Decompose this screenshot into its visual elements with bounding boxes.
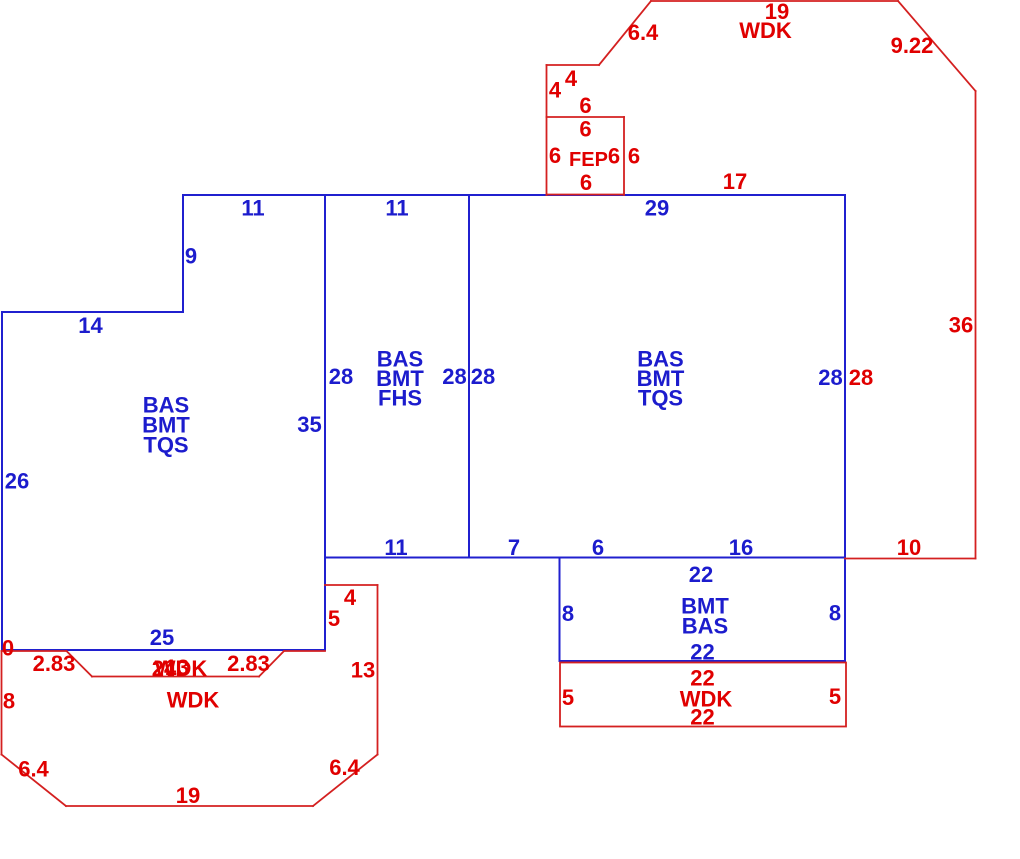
FEP box right <box>623 117 625 195</box>
wire: red left vertical x=546.5 <box>546 65 548 195</box>
svg-text:TQS: TQS <box>143 433 188 458</box>
svg-text:13: 13 <box>351 658 375 683</box>
svg-text:6.4: 6.4 <box>628 20 659 45</box>
svg-text:11: 11 <box>385 196 408 221</box>
svg-text:14: 14 <box>78 313 103 338</box>
svg-text:17: 17 <box>723 169 747 194</box>
svg-text:4: 4 <box>565 66 578 91</box>
svg-text:22: 22 <box>690 705 714 730</box>
svg-text:28: 28 <box>818 365 842 390</box>
svg-text:9.22: 9.22 <box>891 33 934 58</box>
svg-text:2.83: 2.83 <box>33 651 76 676</box>
svg-text:4: 4 <box>344 585 357 610</box>
svg-text:28: 28 <box>329 364 353 389</box>
wire: blue main top wall y=195 <box>183 194 845 196</box>
svg-text:6: 6 <box>579 93 591 118</box>
svg-text:19: 19 <box>176 783 200 808</box>
svg-text:22: 22 <box>690 640 714 665</box>
wire: blue wall x=183 <box>182 195 184 312</box>
wire: blue wall x=325 <box>324 195 326 650</box>
wire: red deck bottom 19 <box>66 805 313 807</box>
wire: red deck top small horizontal <box>547 64 600 66</box>
wire: red deck top overlap right <box>284 650 325 652</box>
wire: red right vertical 36 <box>975 91 977 559</box>
svg-text:26: 26 <box>5 469 29 494</box>
wire: red notch diagonal left 2.83 <box>67 651 93 677</box>
wire: blue bottom of BMT/BAS y=661 <box>560 660 846 662</box>
wire: red notch bottom <box>92 676 259 678</box>
FEP box bottom <box>547 194 625 196</box>
wire: blue wall x=559.5 BMT/BAS <box>559 558 561 662</box>
svg-text:22: 22 <box>689 562 713 587</box>
svg-text:29: 29 <box>645 196 669 221</box>
wire: red deck left vertical 8 <box>1 651 3 755</box>
svg-text:36: 36 <box>949 313 973 338</box>
svg-text:10: 10 <box>897 535 921 560</box>
wire: red deck top edge 19 <box>651 0 898 2</box>
wire: blue bottom wall y=557.5 <box>325 557 845 559</box>
svg-text:9: 9 <box>185 244 197 269</box>
svg-text:28: 28 <box>471 364 495 389</box>
svg-text:28: 28 <box>442 364 466 389</box>
wire: red diagonal 6.4 <box>599 1 651 65</box>
svg-text:8: 8 <box>829 601 841 626</box>
wire: red deck top overlap left <box>2 650 67 652</box>
wire: red deck diagonal right 6.4 <box>313 755 378 807</box>
wire: blue bottom wall y=650 <box>2 649 325 651</box>
wire: red connector right 13 <box>377 585 379 755</box>
svg-text:WDK: WDK <box>167 688 220 713</box>
svg-text:TQS: TQS <box>638 386 683 411</box>
svg-text:6: 6 <box>628 144 640 169</box>
svg-text:7: 7 <box>508 535 520 560</box>
svg-text:16: 16 <box>729 535 753 560</box>
svg-text:5: 5 <box>328 606 340 631</box>
svg-text:4: 4 <box>549 78 562 103</box>
svg-text:2.83: 2.83 <box>227 651 270 676</box>
svg-text:11: 11 <box>241 196 264 221</box>
svg-text:FEP: FEP <box>569 149 608 171</box>
svg-text:6: 6 <box>579 117 591 142</box>
wire: red bottom segment 10 <box>845 558 976 560</box>
svg-text:6: 6 <box>608 144 620 169</box>
svg-text:13: 13 <box>165 655 189 680</box>
FEP box top <box>547 116 625 118</box>
svg-text:5: 5 <box>829 684 841 709</box>
svg-text:6.4: 6.4 <box>329 755 360 780</box>
svg-text:6.4: 6.4 <box>18 757 49 782</box>
wire: blue right wall x=845 <box>844 195 846 661</box>
wire: blue wall y=312 <box>2 311 183 313</box>
wire: red connector top 4 <box>325 584 378 586</box>
svg-text:6: 6 <box>549 143 561 168</box>
svg-text:35: 35 <box>297 412 321 437</box>
svg-text:25: 25 <box>150 625 174 650</box>
red WDK box bottom right <box>560 663 846 727</box>
svg-text:0: 0 <box>2 636 14 661</box>
svg-text:WDK: WDK <box>739 18 792 43</box>
wire: red diagonal 9.22 <box>898 1 976 91</box>
svg-text:FHS: FHS <box>378 386 422 411</box>
svg-text:5: 5 <box>562 685 574 710</box>
svg-text:BAS: BAS <box>682 614 728 639</box>
svg-text:6: 6 <box>580 170 592 195</box>
wire: blue wall x=469 <box>468 195 470 558</box>
wire: blue left wall x=2 <box>1 312 3 650</box>
wire: red deck diagonal left 6.4 <box>2 755 67 807</box>
svg-text:28: 28 <box>849 365 873 390</box>
wire: red notch diagonal right 2.83 <box>259 651 284 677</box>
svg-text:11: 11 <box>384 535 407 560</box>
svg-text:8: 8 <box>562 601 574 626</box>
svg-text:8: 8 <box>3 689 15 714</box>
svg-text:6: 6 <box>592 535 604 560</box>
